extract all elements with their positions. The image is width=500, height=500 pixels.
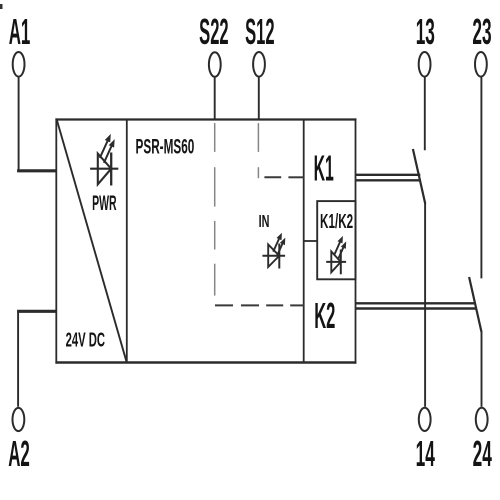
dashed net S12 horizontal to K1 [264,176,303,178]
wire S12 [258,77,260,119]
wire 23 [480,77,482,278]
svg-text:S22: S22 [199,12,228,52]
svg-text:IN: IN [259,213,270,232]
wire A1 vertical [18,77,20,169]
svg-text:24V DC: 24V DC [66,328,105,352]
wire A2 horizontal [17,310,56,313]
LED PWR symbol [90,134,118,186]
contact K1 blade (13-14) [413,149,425,204]
connector to K1/K2 indicator box [304,240,318,242]
crop artifact mark top-left [0,4,3,9]
svg-text:A2: A2 [8,434,30,474]
terminal S12 [253,52,265,77]
wire 24 [481,332,483,407]
wire A2 vertical [17,313,19,407]
LED IN symbol [262,233,285,269]
terminal 23 [475,52,487,77]
svg-text:PSR-MS60: PSR-MS60 [136,135,195,158]
terminal 24 [476,408,488,431]
wire 13 [424,77,426,150]
contact K2 linkage double line [356,303,476,308]
svg-text:A1: A1 [9,12,31,52]
svg-text:14: 14 [416,433,435,474]
relay column divider [303,120,305,363]
module box PSR-MS60 outline [55,118,356,363]
wire S22 [214,77,216,119]
dashed net S22 horizontal to K2 [215,304,304,306]
dashed net S12 vertical [257,123,259,178]
svg-text:13: 13 [416,11,435,52]
wire 14 [424,203,426,407]
svg-text:PWR: PWR [92,191,116,215]
terminal 13 [419,52,431,77]
terminal S22 [209,52,221,77]
terminal A2 [13,408,25,431]
contact K2 blade (23-24) [469,277,481,332]
wire A1 horizontal [17,169,56,172]
svg-text:K1: K1 [314,148,334,188]
K1/K2 indicator box [317,201,355,279]
LED K1/K2 symbol [326,236,346,274]
terminal 14 [419,408,431,431]
terminal A1 [13,52,25,77]
contact K1 linkage double line [356,175,421,181]
power supply diagonal [57,120,127,361]
svg-text:24: 24 [473,433,492,474]
svg-text:S12: S12 [245,12,274,52]
dashed net S22 vertical [214,123,216,296]
svg-text:K2: K2 [314,296,335,336]
svg-text:23: 23 [472,11,491,52]
svg-text:K1/K2: K1/K2 [320,209,353,232]
power column divider [126,120,128,363]
